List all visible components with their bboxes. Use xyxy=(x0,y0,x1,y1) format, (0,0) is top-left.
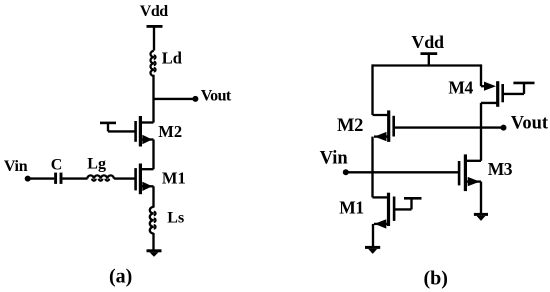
wire M3 source to ground xyxy=(480,182,482,213)
svg-text:Vdd: Vdd xyxy=(140,3,168,20)
svg-text:Ld: Ld xyxy=(162,49,182,68)
M1 gate bias stub (b) xyxy=(394,198,421,209)
ground M3 (b) xyxy=(474,214,488,221)
Vdd supply symbol (a) xyxy=(147,26,163,50)
inductor Ls xyxy=(150,207,156,234)
ground (a) xyxy=(147,251,162,257)
M2 gate bias stub (a) xyxy=(100,123,136,131)
node Vout dot (b) xyxy=(501,125,507,131)
wire Ls to ground xyxy=(152,233,154,250)
wire M4 source down to M3 drain xyxy=(480,103,482,161)
Vdd supply symbol (b) xyxy=(421,54,438,66)
transistor M2 (b) xyxy=(373,110,394,141)
node Vin dot (b) xyxy=(343,169,349,175)
wire top rail xyxy=(373,64,482,66)
svg-text:M2: M2 xyxy=(337,116,363,136)
transistor M2 (a) xyxy=(136,116,154,147)
svg-text:Vin: Vin xyxy=(4,158,28,175)
inductor Ld xyxy=(151,51,156,76)
svg-text:(a): (a) xyxy=(109,266,132,288)
svg-text:(b): (b) xyxy=(424,268,448,290)
capacitor C xyxy=(56,173,61,184)
inductor Lg xyxy=(87,175,114,180)
wire M2 source to M1 drain xyxy=(152,140,154,170)
wire left rail lower xyxy=(371,137,373,198)
transistor M4 (b) xyxy=(481,81,503,107)
wire M1 source to ground xyxy=(372,224,374,246)
svg-text:M1: M1 xyxy=(162,169,186,188)
wire Lg to M1 gate xyxy=(114,177,136,179)
wire Vin to capacitor xyxy=(28,177,55,179)
wire M2 gate to Vout xyxy=(394,126,504,128)
transistor M1 (b) xyxy=(373,193,395,229)
svg-text:M1: M1 xyxy=(339,198,363,218)
wire Vin to M3 gate xyxy=(346,171,459,173)
svg-text:M2: M2 xyxy=(158,122,182,141)
svg-text:Lg: Lg xyxy=(87,156,106,173)
wire capacitor to Lg xyxy=(62,177,87,179)
node Vout dot (a) xyxy=(192,96,198,102)
svg-text:Vout: Vout xyxy=(201,87,232,104)
svg-text:Ls: Ls xyxy=(167,209,184,226)
wire Ld to M2 drain xyxy=(152,75,154,123)
node Vin dot (a) xyxy=(25,176,31,182)
svg-text:Vout: Vout xyxy=(511,113,549,133)
transistor M3 (b) xyxy=(459,154,481,191)
svg-text:Vdd: Vdd xyxy=(411,32,444,52)
wire rail right corner down to M4 xyxy=(480,64,482,86)
transistor M1 (a) xyxy=(136,164,154,195)
ground M1 (b) xyxy=(365,247,380,254)
svg-text:Vin: Vin xyxy=(320,148,349,168)
wire M1 source to Ls xyxy=(152,186,154,207)
svg-text:M4: M4 xyxy=(448,77,473,97)
wire node to Vout xyxy=(154,98,196,100)
wire left rail upper xyxy=(371,64,373,115)
svg-text:C: C xyxy=(51,157,63,174)
svg-text:M3: M3 xyxy=(488,159,513,179)
M4 gate bias stub (b) xyxy=(503,83,535,94)
